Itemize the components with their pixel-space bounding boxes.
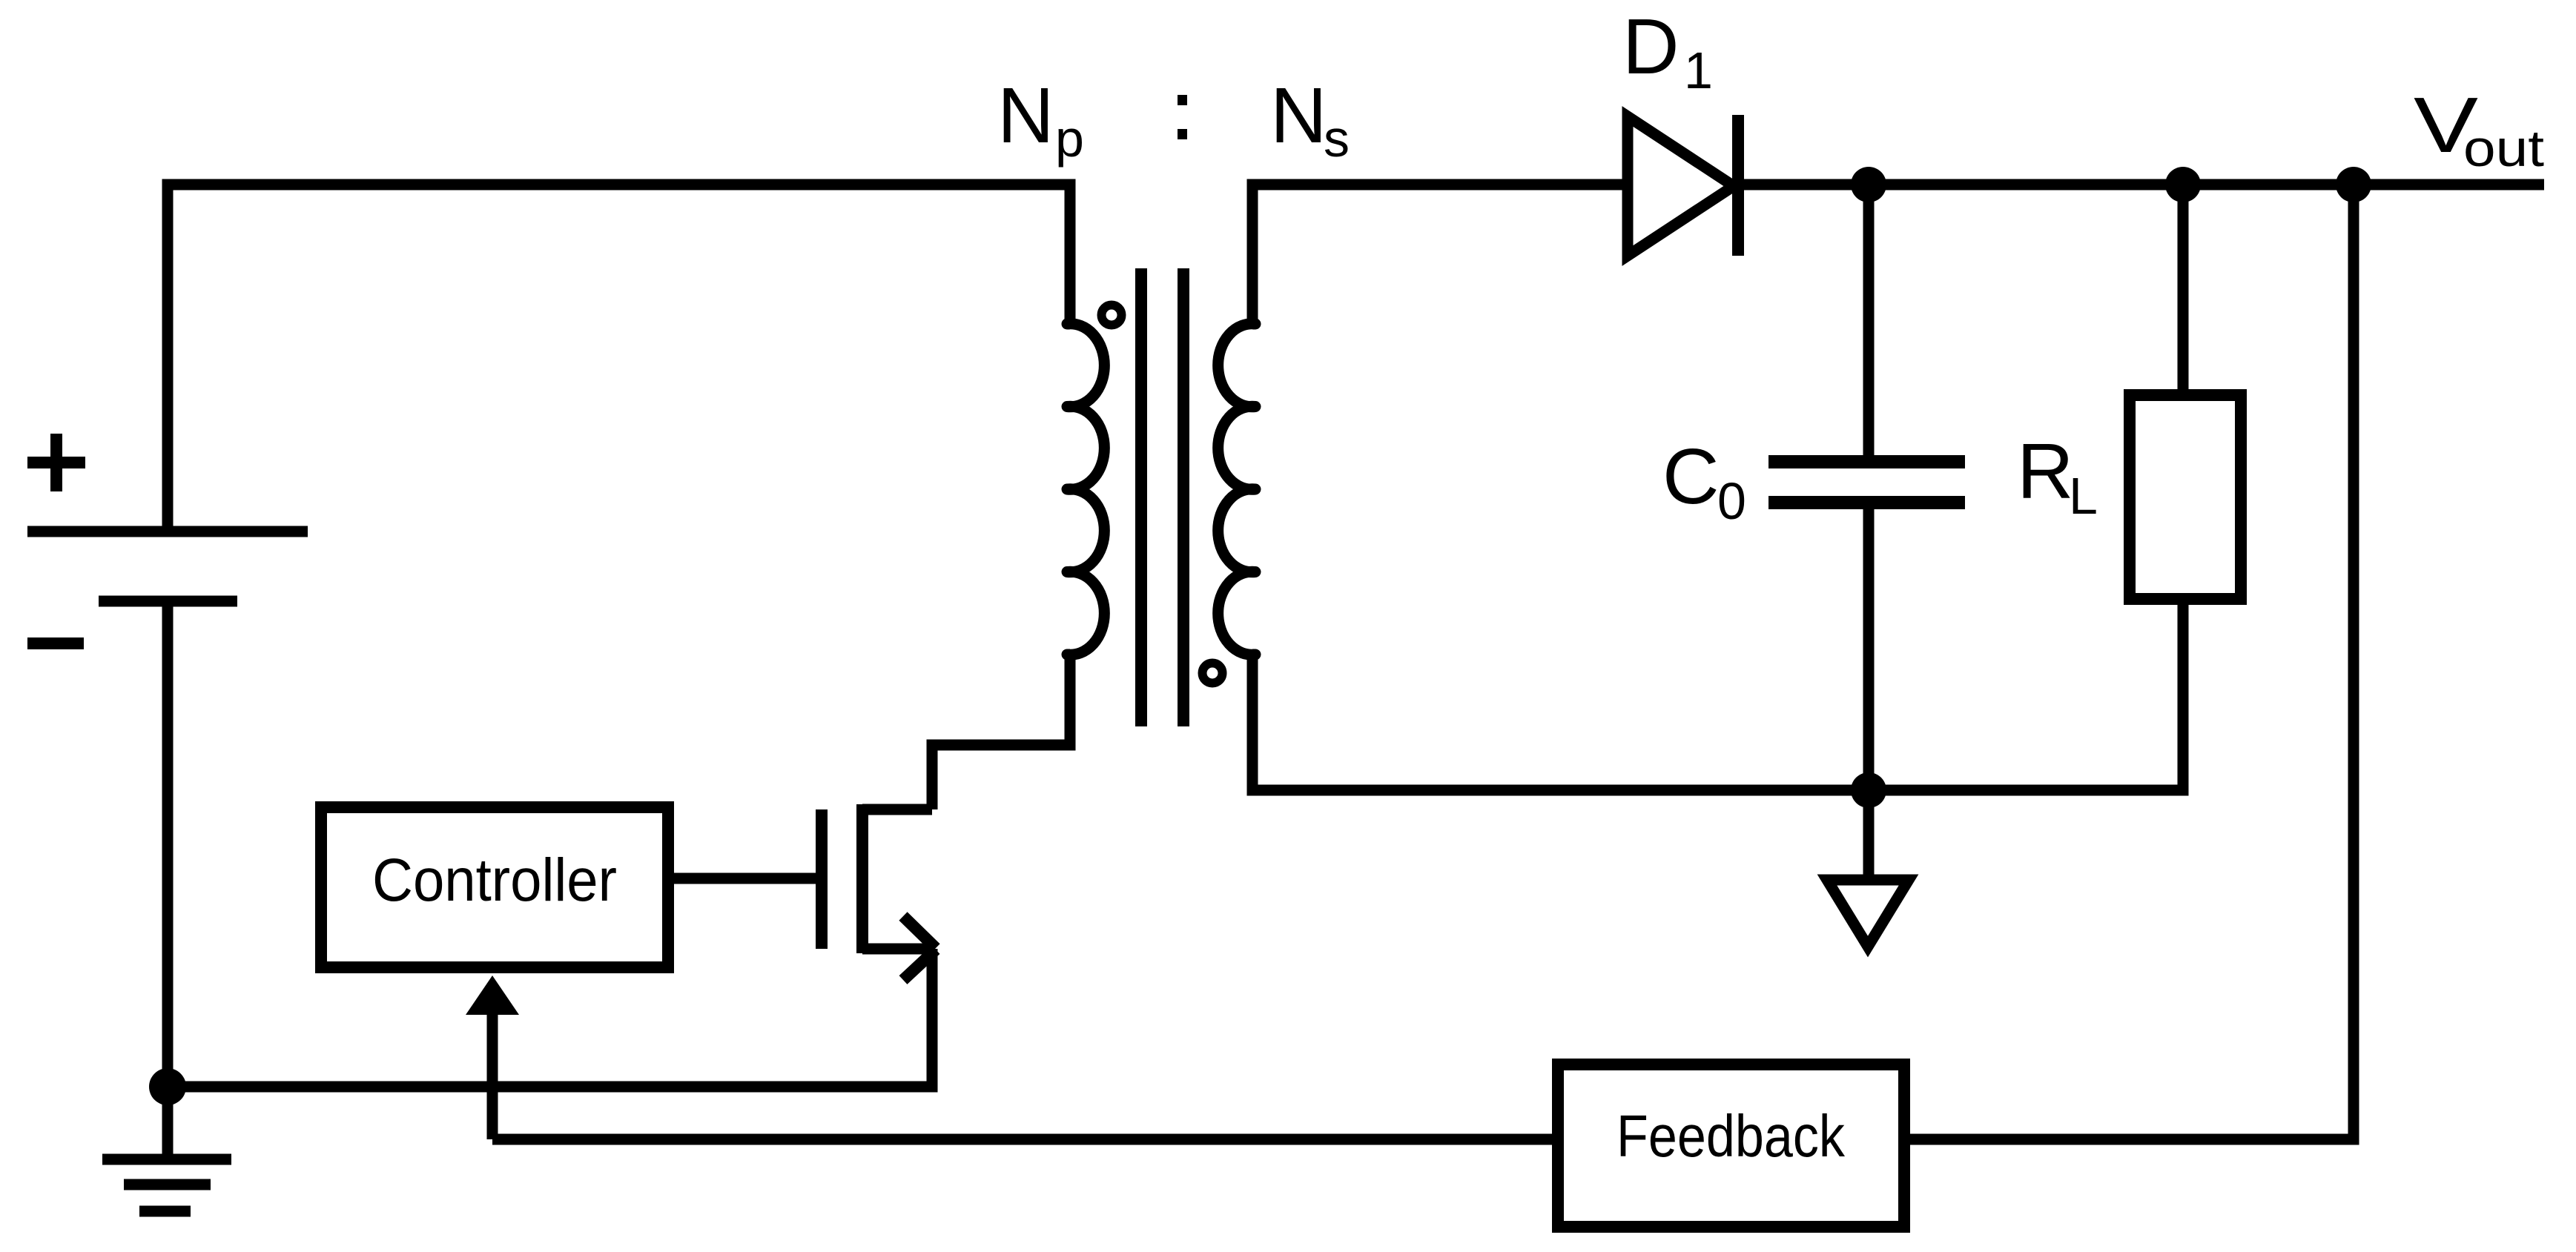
transformer ratio colon [1178,95,1187,105]
wire secondary bottom lead [1252,605,2183,790]
transformer T1 core line 2 [1178,268,1189,726]
svg-text:Controller: Controller [372,847,617,914]
ground 2 stub [1863,790,1875,877]
ground 2 open triangle [1827,880,1909,947]
battery V1 long plate (+) [27,526,308,537]
transformer T1 secondary phase dot [1203,663,1223,683]
transistor Q1 gate bar [816,809,828,949]
wire drain staircase [932,655,1070,809]
transformer T1 secondary winding [1218,324,1255,655]
wire ground stub [162,1087,174,1154]
svg-text:0: 0 [1717,472,1746,530]
wire top rail left (battery + to primary) [168,185,1070,526]
svg-text:s: s [1324,110,1350,168]
svg-text:L: L [2069,467,2098,525]
wire top rail right (secondary to diode) [1252,185,1628,324]
battery plus sign [27,457,85,468]
wire source stub [862,944,932,955]
wire drain stub [862,804,932,815]
ground bar 3 [139,1206,191,1217]
wire top rail right of diode to Vout [1738,179,2544,191]
feedback box U2 [1558,1064,1904,1227]
node junction dot C0 bottom [1851,772,1886,808]
wire gate (controller to Q1 gate) [674,873,816,884]
resistor RL body [2130,395,2241,599]
battery minus sign [27,637,84,649]
diode D1 cathode bar [1732,115,1744,256]
ground bar 2 [124,1179,211,1190]
wire source down [927,949,938,1087]
svg-text:R: R [2017,428,2074,515]
svg-text:C: C [1662,433,1720,520]
node junction dot battery/ground [149,1068,186,1105]
diode D1 triangle [1628,116,1734,256]
ground bar 1 [102,1154,231,1165]
transformer T1 primary phase dot [1102,305,1122,325]
transistor Q1 source arrow stroke 1 [903,916,936,948]
wire primary bottom lead [1065,655,1076,745]
node junction dot RL top [2165,167,2201,202]
svg-text:N: N [997,72,1054,159]
capacitor C0 bottom plate [1768,496,1965,509]
resistor RL top lead [2178,185,2189,389]
wire feedback left [492,1134,1552,1145]
svg-text:p: p [1055,110,1084,168]
wire feedback vertical (Vout to feedback box) [1910,185,2354,1139]
transformer T1 primary winding [1067,324,1104,655]
arrowhead into controller [466,976,519,1015]
svg-text:Feedback: Feedback [1616,1103,1846,1169]
wire bottom rail (minus net to MOSFET source) [168,949,932,1087]
svg-text:out: out [2463,119,2544,177]
wire battery minus lead [162,601,174,1087]
node junction dot C0 top [1851,167,1886,202]
transistor Q1 channel bar [856,804,868,953]
svg-text:D: D [1622,3,1680,90]
transformer T1 core line 1 [1135,268,1147,726]
controller box U1 [321,807,668,967]
transistor Q1 source arrow stroke 2 [903,950,936,980]
capacitor C0 top plate [1768,455,1965,468]
capacitor C0 top lead [1863,185,1875,455]
svg-text:N: N [1270,72,1327,159]
capacitor C0 bottom lead [1863,509,1875,790]
node junction dot Vout feedback [2336,167,2371,202]
resistor RL bottom lead [2178,605,2189,790]
svg-text:1: 1 [1684,42,1713,99]
battery V1 short plate (-) [99,596,237,607]
wire arrow shaft into controller [487,1012,498,1139]
